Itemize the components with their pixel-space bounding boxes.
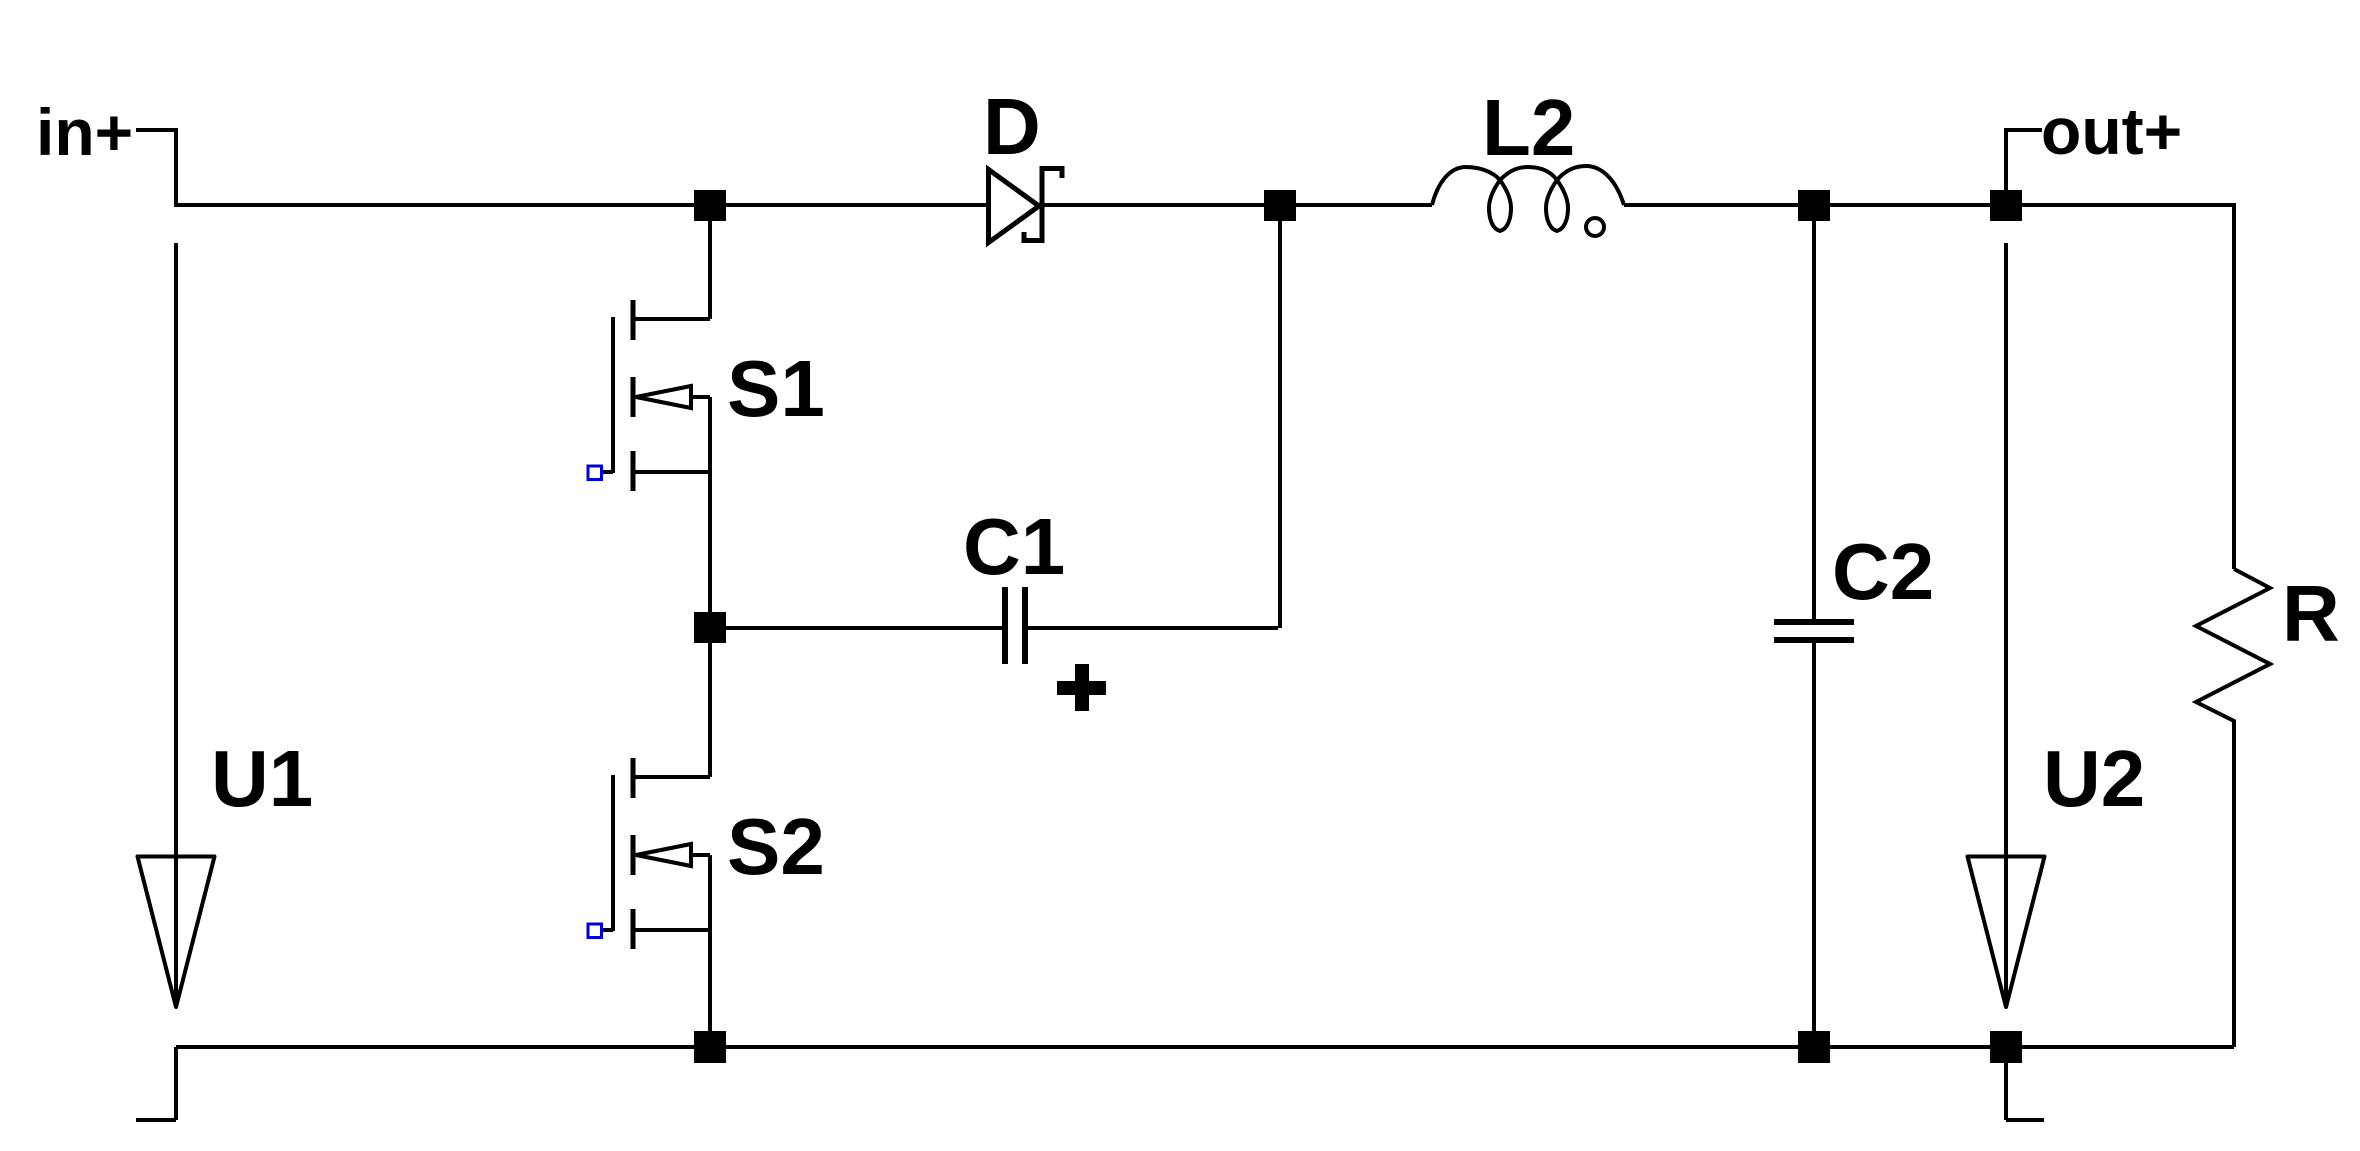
wire node C to C2 [1812, 221, 1816, 619]
svg-text:R: R [2282, 569, 2340, 658]
svg-text:D: D [983, 82, 1041, 171]
voltmeter U2 body line [2004, 243, 2008, 1006]
transistor S2 drain wire [633, 643, 710, 777]
wire diode to node B [1042, 203, 1296, 207]
svg-text:C2: C2 [1832, 527, 1934, 616]
transistor S1 drain wire [633, 221, 710, 319]
transistor S1 bulk arrow [691, 395, 710, 399]
wire node E to C1 [726, 626, 1002, 630]
svg-text:U2: U2 [2043, 734, 2145, 823]
capacitor C1 plates [1005, 587, 1025, 664]
wire out- stub [2006, 1063, 2044, 1120]
diode D triangle [989, 170, 1040, 243]
wire in+ stub [136, 130, 176, 205]
transistor S2 gate [603, 775, 613, 931]
svg-text:in+: in+ [36, 95, 133, 169]
transistor S1 source wire [633, 397, 710, 612]
diode D schottky cathode bar [1024, 166, 1062, 243]
inductor L2 coil [1432, 166, 1624, 231]
node junction C (C2 top) [1798, 190, 1830, 221]
capacitor C1 polarity plus [1057, 664, 1106, 711]
transistor S2 channel bar segments [631, 758, 636, 949]
svg-text:S1: S1 [727, 344, 825, 433]
transistor S1 gate terminal (blue) [588, 466, 602, 480]
wire node B to L2 [1296, 203, 1432, 207]
transistor S1 gate [603, 317, 613, 473]
transistor S2 gate terminal (blue) [588, 924, 602, 938]
voltmeter U1 arrow [138, 857, 215, 1008]
wire node C to out corner and R [2022, 205, 2234, 569]
node junction F (S2 source / bottom rail) [694, 1031, 726, 1063]
wire out+ stub [2006, 130, 2042, 190]
wire C1 right to node B [1028, 221, 1280, 628]
wire top rail left [174, 203, 988, 207]
node junction B (diode cathode / C1 top) [1264, 190, 1296, 221]
wire bottom rail [176, 1045, 2234, 1049]
svg-text:U1: U1 [211, 734, 313, 823]
node junction E (C1 left / S1-S2 midpoint) [694, 612, 726, 643]
voltmeter U1 body line [174, 243, 178, 1006]
node junction A (drain S1 / top rail) [694, 190, 726, 221]
resistor R zigzag [2196, 569, 2270, 1047]
inductor L2 polarity dot [1586, 218, 1604, 236]
wire in- stub [136, 1047, 176, 1120]
node junction H (out- / U2 bottom) [1990, 1031, 2022, 1063]
transistor S1 channel bar segments [631, 300, 636, 491]
node junction G (C2 bottom) [1798, 1031, 1830, 1063]
wire L2 to node C [1624, 203, 1990, 207]
svg-text:S2: S2 [727, 802, 825, 891]
transistor S2 bulk arrow [691, 853, 710, 857]
wire C2 to bottom rail [1812, 643, 1816, 1031]
capacitor C2 plates [1774, 622, 1854, 640]
node junction at out+ [1990, 190, 2022, 221]
svg-text:out+: out+ [2041, 94, 2182, 168]
voltmeter U2 arrow [1968, 857, 2045, 1008]
svg-text:L2: L2 [1482, 83, 1575, 172]
svg-text:C1: C1 [963, 502, 1065, 591]
transistor S2 source wire [633, 855, 710, 1031]
